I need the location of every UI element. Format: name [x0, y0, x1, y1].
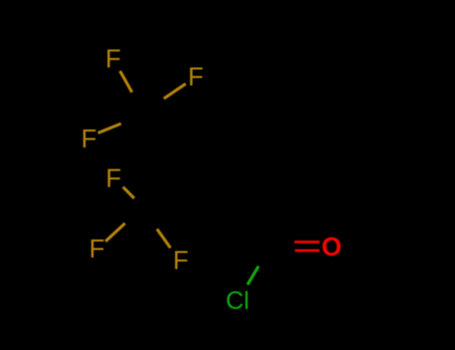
svg-text:O: O	[322, 231, 342, 261]
svg-text:F: F	[188, 64, 204, 92]
svg-text:F: F	[105, 45, 121, 73]
svg-text:F: F	[81, 126, 97, 154]
svg-text:F: F	[89, 236, 105, 264]
svg-text:F: F	[173, 247, 189, 275]
svg-text:F: F	[106, 165, 122, 193]
svg-text:Cl: Cl	[226, 287, 250, 315]
